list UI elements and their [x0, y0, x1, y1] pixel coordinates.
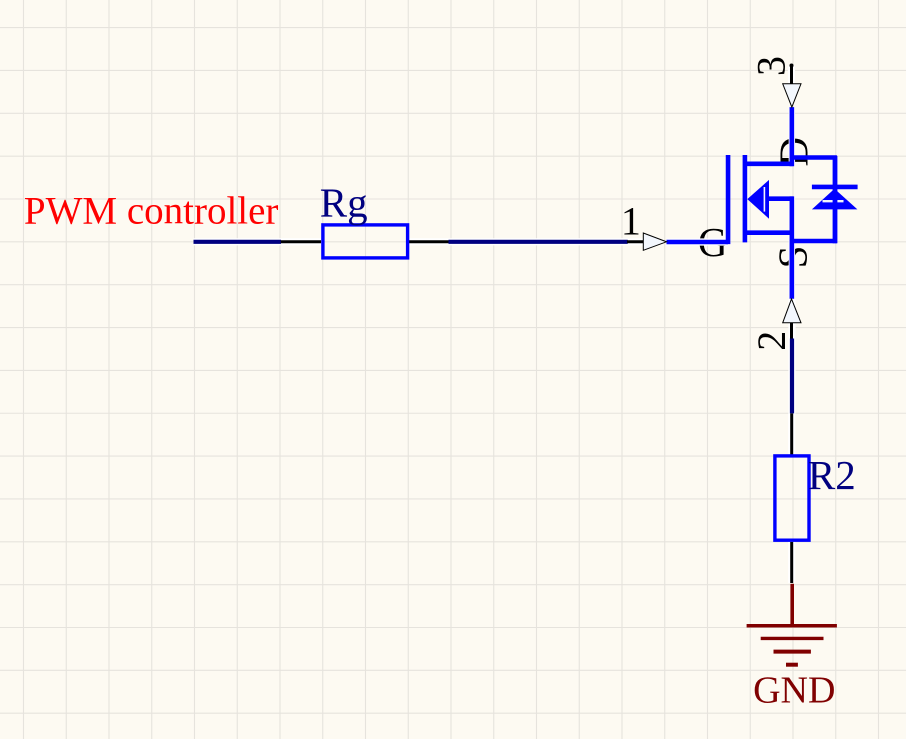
svg-text:1: 1: [621, 199, 641, 244]
svg-text:PWM controller: PWM controller: [24, 190, 279, 233]
svg-text:Rg: Rg: [320, 180, 368, 226]
svg-text:R2: R2: [808, 452, 856, 498]
svg-text:GND: GND: [753, 670, 835, 712]
svg-text:3: 3: [748, 56, 793, 76]
svg-text:2: 2: [749, 331, 794, 351]
